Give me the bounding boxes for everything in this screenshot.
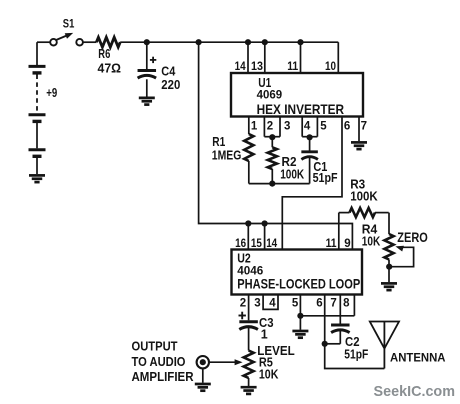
svg-text:13: 13 [251, 61, 263, 73]
svg-text:ZERO: ZERO [397, 229, 428, 245]
wire R4 wiper [392, 246, 414, 267]
svg-text:3: 3 [254, 297, 260, 309]
wire U2 pin 6 down [324, 295, 326, 344]
wire pin 5 ground lead [299, 316, 301, 330]
wire battery to switch [37, 41, 50, 43]
svg-text:51pF: 51pF [313, 171, 338, 185]
pin label 1 [251, 120, 258, 132]
svg-text:11: 11 [287, 61, 299, 73]
label PHASE-LOCKED LOOP [237, 275, 360, 291]
svg-text:14: 14 [266, 238, 278, 250]
svg-text:100K: 100K [350, 189, 378, 203]
svg-text:OUTPUT: OUTPUT [132, 338, 178, 353]
battery B1 +9V cell 1 [29, 42, 46, 73]
label HEX INVERTER [257, 101, 345, 117]
svg-text:10K: 10K [362, 235, 381, 249]
node R2 bottom [269, 181, 275, 187]
pin label 5 [320, 120, 327, 132]
node U2 pin 15 junction [262, 220, 268, 226]
svg-text:+9: +9 [46, 86, 57, 100]
node R4 bottom [386, 264, 392, 270]
svg-text:6: 6 [316, 297, 322, 309]
wire U1 pin 2 stub [263, 117, 265, 137]
pin label 2b [240, 297, 246, 309]
label C3 plus [239, 312, 246, 320]
pin label 7 [361, 120, 367, 132]
label U2 [237, 251, 251, 265]
svg-text:TO AUDIO: TO AUDIO [132, 354, 186, 369]
svg-text:1: 1 [251, 120, 258, 132]
pin label 3b [254, 297, 260, 309]
wire R3 to R4 [388, 213, 390, 234]
wire U1 pin 1 stub [248, 117, 250, 135]
label S1 [63, 18, 75, 30]
label C1 51pF [313, 171, 338, 185]
svg-text:R1: R1 [212, 135, 225, 149]
wire U1 pin 14 stub [247, 42, 249, 73]
label R5 10K [259, 367, 279, 381]
wire U1 pin 6 down [282, 117, 342, 250]
wire U1 pin 4 stub [301, 117, 303, 137]
label R2 100K [280, 167, 304, 181]
label C4 plus [150, 57, 156, 63]
svg-text:4: 4 [304, 120, 311, 132]
label TO AUDIO [132, 354, 186, 369]
pin label 3 [284, 120, 290, 132]
label 4046 [237, 264, 263, 278]
pin label 6b [316, 297, 322, 309]
svg-text:8: 8 [343, 297, 350, 309]
ground below R5 [241, 387, 257, 394]
wire U2 pin 16 stub [247, 224, 249, 250]
node C1 top [307, 134, 313, 140]
label C3 [259, 316, 274, 330]
wire U2 pin 2 stub [248, 295, 250, 321]
svg-text:R6: R6 [98, 47, 110, 61]
wire output to R5 wiper [209, 359, 242, 365]
svg-text:3: 3 [284, 120, 290, 132]
wire R3 left lead [339, 212, 350, 214]
ground below connector [195, 384, 211, 391]
svg-text:100K: 100K [280, 167, 304, 181]
capacitor C1 [301, 137, 318, 183]
label C3 1 [261, 328, 268, 342]
node supply feed junction [196, 39, 202, 45]
antenna [370, 322, 399, 369]
pin label 16 [235, 238, 246, 250]
pin label 14b [266, 238, 278, 250]
label 47ohm [98, 60, 122, 75]
wire R1 to bottom rail [248, 161, 250, 184]
label ANTENNA [390, 352, 446, 364]
label C2 [345, 335, 360, 349]
ground below R4 [381, 283, 397, 290]
svg-text:4069: 4069 [257, 88, 283, 102]
svg-text:7: 7 [361, 120, 367, 132]
pin label 13 [251, 61, 263, 73]
label R1 [212, 135, 225, 149]
pin label 14 [235, 61, 247, 73]
svg-text:47Ω: 47Ω [98, 60, 122, 75]
resistor R5 [244, 351, 254, 379]
label 4069 [257, 88, 283, 102]
wire switch to R6 [83, 41, 97, 43]
svg-text:C4: C4 [161, 64, 175, 78]
battery B1 cell 2 [29, 115, 46, 149]
op-amp U2 box [232, 250, 363, 295]
svg-text:1MEG: 1MEG [212, 149, 242, 163]
label C2 51pF [344, 347, 368, 361]
wire bottom rail R1 R2 C1 [249, 183, 310, 185]
wire R5 bottom lead [248, 378, 250, 386]
wire R2 top lead [271, 137, 273, 147]
resistor R4 [384, 234, 393, 260]
pin label 11b [326, 238, 338, 250]
resistor R1 [244, 134, 253, 161]
svg-text:16: 16 [235, 238, 246, 250]
wire U1 pin 7 stub [358, 117, 360, 142]
svg-text:5: 5 [320, 120, 327, 132]
label R5 [259, 355, 273, 369]
ground below battery [29, 175, 45, 182]
wire pin2-pin3 join [264, 136, 280, 138]
wire supply feed to U2 [199, 42, 353, 249]
pin label 10 [325, 61, 336, 73]
wire C2 bottom join [325, 343, 341, 345]
wire connector ground lead [202, 368, 204, 382]
svg-text:HEX INVERTER: HEX INVERTER [257, 101, 345, 117]
node U1 pin 11 junction [297, 39, 303, 45]
label R3 100K [350, 189, 378, 203]
pin label 15 [251, 238, 263, 250]
label C4 [161, 64, 175, 78]
svg-text:2: 2 [240, 297, 246, 309]
node U1 pin 13 junction [262, 39, 268, 45]
label R4 10K [362, 235, 381, 249]
svg-text:AMPLIFIER: AMPLIFIER [132, 369, 194, 384]
capacitor C3 [239, 322, 258, 351]
label C1 [313, 160, 327, 174]
wire U1 pin 11 stub [300, 42, 302, 73]
svg-text:ANTENNA: ANTENNA [390, 352, 446, 364]
wire U1 pin 5 stub [316, 117, 318, 137]
svg-text:51pF: 51pF [344, 347, 368, 361]
svg-text:5: 5 [292, 297, 299, 309]
connector J1 output [197, 356, 209, 368]
wire U2 pin 15 stub [264, 224, 266, 250]
pin label 6 [344, 120, 350, 132]
pin label 9 [344, 238, 350, 250]
label R6 [98, 47, 110, 61]
svg-text:2: 2 [267, 120, 273, 132]
svg-text:10: 10 [325, 61, 336, 73]
svg-text:220: 220 [161, 78, 180, 92]
pin label 7b [330, 297, 336, 309]
wire pin4-pin5 join [302, 136, 317, 138]
pin label 4 [304, 120, 311, 132]
ground below U1 pin 7 [351, 142, 367, 149]
pin label 8b [343, 297, 350, 309]
pin label 11 [287, 61, 299, 73]
svg-text:9: 9 [344, 238, 350, 250]
label LEVEL [257, 343, 295, 358]
svg-text:15: 15 [251, 238, 263, 250]
wire R3 right lead [375, 212, 389, 214]
node U1 pin 14 junction [245, 39, 251, 45]
label +9 [46, 86, 57, 100]
pin label 5b [292, 297, 299, 309]
battery dashed link [36, 75, 38, 113]
label U1 [258, 76, 271, 90]
capacitor C2 [331, 325, 350, 344]
wire U2 pin 5 stub [299, 295, 301, 316]
node R2 top [269, 134, 275, 140]
label 1MEG [212, 149, 242, 163]
label ZERO [397, 229, 428, 245]
svg-text:6: 6 [344, 120, 350, 132]
watermark SeekIC.com [374, 383, 456, 400]
wire U1 pin 13 stub [264, 42, 266, 73]
op-amp U1 box [231, 73, 363, 117]
svg-text:14: 14 [235, 61, 247, 73]
resistor R3 [350, 208, 376, 217]
wire U2 pin 8 stub [353, 295, 355, 316]
svg-text:11: 11 [326, 238, 338, 250]
svg-text:10K: 10K [259, 367, 279, 381]
wire R3 to U2 pin 11 [338, 213, 340, 250]
svg-text:4: 4 [269, 297, 276, 309]
wire to antenna [325, 344, 385, 369]
svg-text:S1: S1 [63, 18, 75, 30]
wire R6 to U1 pin 10 corner [120, 41, 338, 43]
capacitor C4 [138, 42, 157, 97]
label AMPLIFIER [132, 369, 194, 384]
svg-text:PHASE-LOCKED LOOP: PHASE-LOCKED LOOP [237, 275, 360, 291]
wire ground rail pins 5-8 [300, 315, 354, 317]
node U2 pin 5 ground [297, 313, 303, 319]
ground below U2 pin 5 [292, 331, 308, 338]
resistor R2 [268, 147, 277, 169]
label OUTPUT [132, 338, 178, 353]
battery B1 cell 3 [29, 150, 46, 174]
wire R4 bottom lead [388, 260, 390, 283]
label R2 [282, 155, 297, 169]
node C2 bottom junction [322, 341, 328, 347]
svg-text:SeekIC.com: SeekIC.com [374, 383, 456, 400]
label R4 [362, 223, 378, 237]
wire U2 pin 7 stub [339, 295, 341, 325]
svg-text:7: 7 [330, 297, 336, 309]
wire R2 to bottom rail [271, 169, 273, 184]
switch S1 [50, 33, 83, 46]
wire U2 pin 3-4 jumper [263, 295, 278, 310]
label R3 [350, 177, 365, 191]
label 220 [161, 78, 180, 92]
wire U1 pin 3 stub [279, 117, 281, 137]
node C4 junction [144, 39, 150, 45]
svg-text:1: 1 [261, 328, 268, 342]
pin label 2 [267, 120, 273, 132]
wire U1 pin 10 stub [337, 42, 339, 73]
node U2 pin 16 junction [245, 220, 251, 226]
resistor R6 [96, 37, 120, 47]
ground below C4 [139, 98, 155, 105]
pin label 4b [269, 297, 276, 309]
